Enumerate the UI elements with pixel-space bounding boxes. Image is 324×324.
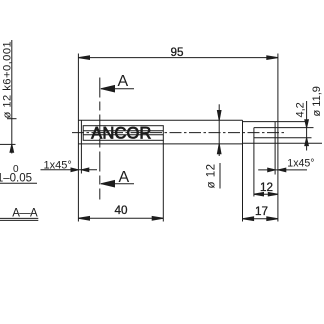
shaft left end face / extension line for 95 and 40 dims — [77, 54, 79, 222]
svg-text:4,2: 4,2 — [295, 102, 307, 117]
dim 4.2 extension line top (d11.9 top) — [278, 121, 308, 123]
knurl strikethrough line upper — [83, 130, 163, 132]
dim d12k6 bottom arrow (pointing up) — [10, 144, 14, 152]
svg-text:A: A — [119, 169, 130, 186]
shoulder step at 17mm from right end / extension line for 17 dim — [242, 120, 244, 221]
svg-text:ANCOR: ANCOR — [91, 125, 151, 143]
svg-text:1–0.05: 1–0.05 — [0, 172, 32, 184]
dim d12k6 bottom extension line — [0, 143, 16, 145]
section line A-A (dashed) — [99, 78, 101, 200]
left chamfer dim 1x45 line — [41, 169, 98, 171]
right chamfer dim arrow (pointing right to chamfer line) — [268, 168, 275, 172]
svg-text:A: A — [118, 73, 129, 90]
shaft top edge (main d12 section) — [78, 119, 242, 121]
dim 4.2 extension line hole bottom — [278, 137, 312, 139]
dim d12 bottom arrow (outside, pointing up) — [217, 144, 221, 154]
shaft right end face / extension line for 95, 12, 17 dims — [277, 54, 279, 222]
dim 4.2 extension line hole top — [278, 127, 314, 129]
dim d12 top arrow (outside, pointing down) — [217, 111, 221, 121]
dim 4.2 upper arrow (pointing down to hole top) — [305, 120, 309, 128]
left chamfer dim arrow from right (pointing left) — [81, 168, 88, 172]
dim 40 left arrow — [78, 217, 89, 221]
axial hole bottom / extension line for 12 dim — [253, 128, 255, 197]
dim 95 left arrow — [78, 56, 89, 60]
dim d11.9 extension line bottom — [278, 142, 322, 144]
svg-text:ø 12 k6+0,001: ø 12 k6+0,001 — [2, 41, 14, 119]
dim 12 left arrow — [254, 193, 264, 196]
shaft bottom edge (main d12 section) — [78, 143, 242, 145]
right end chamfer line 1x45 — [274, 122, 276, 175]
dim d12 vertical line mid shaft — [218, 104, 220, 156]
svg-text:17: 17 — [255, 205, 268, 218]
svg-text:40: 40 — [114, 204, 128, 217]
shaft centerline (dash-dot) — [72, 132, 284, 134]
right chamfer dim arrow (pointing left to end face) — [278, 168, 285, 172]
section arrow A top head (pointing left) — [101, 86, 115, 92]
dim 40 line — [78, 217, 163, 219]
dim 4.2 vertical line — [306, 101, 308, 151]
dim 95 right arrow — [267, 56, 278, 60]
dim d12k6 top tick — [7, 118, 17, 120]
svg-text:ø 12: ø 12 — [206, 163, 218, 188]
knurl box right edge extension down to 40 dim — [162, 140, 164, 221]
dim d12k6 vertical line at far left — [11, 40, 13, 154]
section arrow A top line — [101, 88, 134, 90]
axial hole bottom line at right end — [254, 137, 278, 139]
dim d12 text underline — [219, 163, 221, 189]
dim 17 line — [243, 218, 278, 220]
axial hole top line at right end — [254, 127, 278, 129]
shaft top edge (d11.9 end section) — [243, 121, 278, 123]
svg-text:95: 95 — [170, 46, 184, 59]
svg-text:A—A: A—A — [12, 208, 38, 220]
dim 4.2 lower arrow (pointing up to hole bottom) — [305, 138, 309, 146]
section label A-A underline (double) — [0, 217, 38, 219]
dim 17 right arrow — [267, 217, 278, 221]
section arrow A bottom head (pointing left) — [101, 181, 115, 187]
dim 17 left arrow — [243, 217, 254, 221]
right chamfer dim 1x45 line — [258, 169, 307, 171]
dim 40 right arrow — [152, 217, 163, 221]
svg-text:12: 12 — [260, 181, 273, 194]
knurl strikethrough line lower — [83, 134, 163, 136]
section arrow A bottom line — [101, 183, 134, 185]
tolerance text underline — [0, 182, 37, 184]
dim 12 line — [254, 193, 278, 195]
left end chamfer line 1x45 — [80, 120, 82, 173]
svg-text:1x45°: 1x45° — [287, 158, 314, 170]
dim 12 right arrow — [268, 193, 278, 196]
dim 95 line — [78, 57, 278, 59]
knurl box around ANCOR marking — [83, 126, 163, 141]
left chamfer dim arrow to face (pointing right) — [71, 168, 78, 172]
svg-text:ø 11,9: ø 11,9 — [311, 86, 323, 116]
svg-text:1x45°: 1x45° — [44, 159, 72, 171]
shaft bottom edge (d11.9 end section) — [243, 142, 278, 144]
